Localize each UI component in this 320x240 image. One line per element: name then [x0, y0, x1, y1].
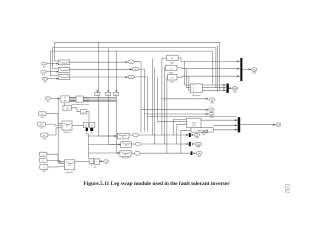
svg-text:Out1: Out1	[252, 72, 257, 75]
svg-text:*,3: *,3	[192, 91, 194, 93]
svg-text:1: 1	[44, 63, 45, 65]
svg-text:Out8: Out8	[196, 146, 200, 149]
svg-text:1: 1	[43, 154, 44, 156]
svg-text:fault detection unit: fault detection unit	[72, 103, 89, 106]
svg-text:Cst2: Cst2	[40, 126, 44, 129]
svg-text:Out7: Out7	[195, 137, 199, 140]
svg-text:Cst6: Cst6	[42, 170, 46, 173]
svg-text:z: z	[116, 94, 117, 96]
svg-text:g: g	[135, 69, 136, 71]
svg-text:g: g	[131, 62, 132, 64]
svg-text:1/z: 1/z	[66, 108, 69, 110]
svg-text:z: z	[97, 94, 98, 96]
svg-text:op: op	[203, 134, 206, 136]
svg-text:s2: s2	[125, 145, 127, 147]
svg-text:s1: s1	[122, 137, 124, 139]
svg-text:z: z	[108, 94, 109, 96]
svg-text:Switch3: Switch3	[122, 156, 130, 159]
svg-text:Out6: Out6	[210, 116, 214, 119]
svg-text:1.5: 1.5	[41, 114, 44, 116]
svg-text:Out1: Out1	[252, 68, 256, 71]
svg-text:O8: O8	[197, 144, 199, 146]
svg-text:Cst1: Cst1	[41, 116, 45, 119]
svg-text:>: >	[91, 160, 92, 163]
svg-text:3: 3	[43, 167, 44, 169]
svg-text:Out3: Out3	[276, 123, 280, 126]
svg-text:O6: O6	[210, 114, 212, 116]
svg-text:~: ~	[96, 161, 97, 163]
svg-text:O9: O9	[198, 153, 200, 155]
svg-text:In3: In3	[44, 81, 48, 83]
svg-text:In2: In2	[42, 74, 46, 76]
svg-text:g: g	[131, 77, 132, 79]
svg-text:Out4: Out4	[210, 102, 214, 105]
svg-text:Switch1: Switch1	[63, 131, 71, 134]
svg-text:O7: O7	[196, 135, 198, 137]
svg-text:Out9: Out9	[197, 155, 201, 158]
svg-text:Rel1: Rel1	[170, 63, 175, 65]
svg-text:2.5: 2.5	[43, 135, 46, 137]
svg-text:Out2: Out2	[233, 91, 238, 94]
svg-text:Multiport: Multiport	[192, 94, 200, 97]
svg-text:O5: O5	[210, 110, 212, 112]
svg-text:s3: s3	[125, 154, 127, 156]
svg-text:O4: O4	[211, 99, 213, 101]
svg-text:logic block: logic block	[197, 130, 208, 132]
svg-text:Rel3: Rel3	[170, 82, 175, 84]
svg-text:Cst3: Cst3	[43, 137, 47, 140]
svg-text:In1: In1	[43, 66, 47, 68]
svg-text:Out2: Out2	[233, 87, 237, 90]
svg-text:Oa: Oa	[105, 161, 107, 163]
svg-text:cmp: cmp	[93, 167, 96, 169]
svg-text:0.5: 0.5	[40, 124, 43, 126]
svg-text:blk: blk	[193, 125, 195, 127]
svg-text:*,2: *,2	[192, 88, 194, 90]
svg-text:Ia: Ia	[47, 101, 50, 103]
svg-text:Switch2: Switch2	[66, 171, 74, 174]
svg-text:*,1: *,1	[192, 85, 194, 87]
svg-text:2: 2	[43, 161, 44, 163]
